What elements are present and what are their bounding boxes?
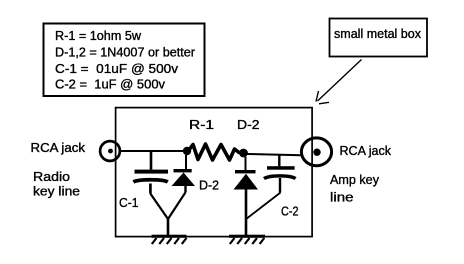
callout arrow to enclosure corner xyxy=(316,60,362,104)
value label C-2 = 1uF @ 500v xyxy=(55,78,166,92)
svg-text:C-1: C-1 xyxy=(119,196,139,210)
node A (junction dot left) xyxy=(183,147,191,155)
node B (junction dot right) xyxy=(239,149,248,158)
value label D-1,2 = 1N4007 or better xyxy=(55,46,195,60)
svg-text:D-2: D-2 xyxy=(237,118,260,132)
svg-text:R-1 = 1ohm 5w: R-1 = 1ohm 5w xyxy=(55,29,142,43)
wire: node B to right jack xyxy=(248,154,302,155)
capacitor C1 xyxy=(133,151,168,194)
svg-text:R-1: R-1 xyxy=(189,118,214,132)
label R-1 xyxy=(189,118,214,132)
parts list box xyxy=(44,24,205,97)
capacitor C2 xyxy=(264,155,296,193)
svg-text:D-1,2 = 1N4007 or better: D-1,2 = 1N4007 or better xyxy=(55,46,195,60)
ground (left chassis) xyxy=(152,235,187,244)
RCA jack J1 (left) xyxy=(100,141,120,161)
svg-text:C-2: C-2 xyxy=(281,204,299,218)
value label R-1 = 1ohm 5w xyxy=(55,29,142,43)
ground (right chassis) xyxy=(229,235,265,244)
wire: D2a to ground V xyxy=(168,192,186,219)
svg-text:key line: key line xyxy=(33,185,80,199)
wire: ground V stem (left) xyxy=(167,218,170,236)
wire: C2 to right ground stem xyxy=(246,193,281,220)
label Amp key line xyxy=(330,173,380,204)
wire: left jack to node A xyxy=(120,150,187,152)
svg-text:RCA jack: RCA jack xyxy=(31,141,86,155)
diode D2a (left) xyxy=(172,155,196,192)
svg-text:Amp key: Amp key xyxy=(330,173,380,187)
label Radio key line xyxy=(33,170,80,199)
diode D2b (right) xyxy=(234,157,259,190)
svg-text:D-2: D-2 xyxy=(199,179,219,193)
svg-text:line: line xyxy=(330,190,354,204)
RCA jack J2 (right) xyxy=(301,138,331,166)
wire: D2b cathode to ground (right stem) xyxy=(245,190,248,237)
label C-2 xyxy=(281,204,299,218)
label RCA jack (right) xyxy=(340,144,392,158)
resistor R-1 xyxy=(189,144,239,160)
svg-text:Radio: Radio xyxy=(33,170,70,184)
wire: C1 to ground V xyxy=(150,194,168,220)
value label C-1 = 01uF @ 500v xyxy=(55,62,179,76)
svg-text:RCA jack: RCA jack xyxy=(340,144,392,158)
enclosure (metal box) xyxy=(116,108,313,237)
label RCA jack (left) xyxy=(31,141,86,155)
svg-text:C-2 = 1uF @ 500v: C-2 = 1uF @ 500v xyxy=(55,78,166,92)
label D-2 (middle) xyxy=(199,179,219,193)
svg-text:small metal box: small metal box xyxy=(334,27,422,41)
label C-1 xyxy=(119,196,139,210)
svg-text:C-1 = 01uF @ 500v: C-1 = 01uF @ 500v xyxy=(55,62,179,76)
callout box: small metal box xyxy=(330,19,428,57)
label D-2 (top) xyxy=(237,118,260,132)
